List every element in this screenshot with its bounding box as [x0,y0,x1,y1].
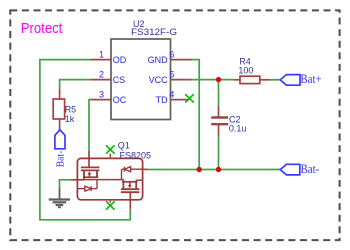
wire OD net (pin1 to Q1 right FET drain) [40,60,130,220]
wire R4 to Bat+ port [270,79,281,81]
no-ERC marker on Q1 top pin [106,145,115,153]
IC U2 body [111,39,171,120]
svg-text:1: 1 [99,49,104,59]
Q1 left FET (discharge) [81,167,100,179]
svg-text:2: 2 [99,69,104,79]
Q1 ground-side pin [71,179,84,181]
wire Bat- rail [148,169,280,171]
resistor R4 [234,56,270,83]
resistor R5 [53,89,76,130]
svg-text:6: 6 [169,49,174,59]
wire GND net (pin6 down to Bat- rail) [192,60,200,170]
wire CS net (pin2 down to R5) [60,80,91,89]
svg-text:4: 4 [169,89,174,99]
wire VCC net (pin5 to R4) [192,79,235,81]
Q1 bottom NC pin stub [109,200,111,203]
wire C2 to Bat- rail [218,136,220,170]
svg-text:Bat-: Bat- [55,150,67,167]
Q1 left FET body diode [77,180,97,192]
Q1 top NC pin stub [109,154,111,159]
port Bat+ [280,72,321,86]
ground [49,187,70,207]
svg-text:VCC: VCC [149,75,169,85]
no-ERC marker on TD pin [185,94,194,102]
junction C2/Bat- rail [216,167,221,172]
U2 pin 1 OD [91,49,127,65]
port Bat- (right) [280,162,319,176]
svg-text:TD: TD [156,95,168,105]
svg-text:1k: 1k [65,114,75,124]
U2 pin 4 TD [156,89,189,105]
svg-text:OD: OD [113,55,127,65]
svg-text:CS: CS [113,75,126,85]
no-ERC marker on Q1 bottom pin [106,201,115,209]
Q1 left FET gate lead (from OC) [88,151,90,167]
svg-text:Q1: Q1 [118,140,130,150]
svg-text:0.1u: 0.1u [229,124,247,134]
svg-text:Bat+: Bat+ [300,72,321,86]
U2 pin 6 GND [148,49,192,65]
capacitor C2 [211,106,246,136]
svg-text:5: 5 [169,69,174,79]
U2 pin 5 VCC [149,69,192,85]
wire VCC to C2 branch [218,80,220,106]
junction VCC/R4/C2 [216,77,221,82]
wire ground to Q1 source [60,180,71,188]
svg-text:GND: GND [148,55,169,65]
Q1 Bat- pin stub [143,168,149,170]
junction GND/Bat- rail [197,167,202,172]
transistor Q1 package FS8205 [77,158,142,199]
wire OC net (pin3 down to Q1 left FET gate) [89,100,91,151]
svg-text:OC: OC [113,95,127,105]
U2 pin 3 OC [91,89,127,105]
svg-text:3: 3 [99,89,104,99]
svg-text:FS8205: FS8205 [120,151,152,161]
svg-text:100: 100 [238,66,253,76]
svg-text:R5: R5 [65,104,77,114]
svg-text:Protect: Protect [21,20,63,37]
U2 pin 2 CS [91,69,126,85]
Q1 internal bridge wire [84,179,123,181]
svg-text:FS312F-G: FS312F-G [131,27,177,37]
Q1 right FET (charge) [121,180,143,193]
port Bat- (left, rotated) [55,130,67,167]
Q1 right FET gate lead (to OD wire) [129,192,131,209]
Q1 right FET body diode [122,167,143,180]
svg-text:Bat-: Bat- [301,162,320,176]
